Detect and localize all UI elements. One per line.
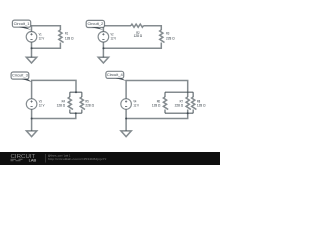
svg-text:128 Ω: 128 Ω bbox=[134, 34, 143, 38]
svg-text:http://circuitlab.com/c/4534b8: http://circuitlab.com/c/4534b8djnjv7z bbox=[48, 157, 107, 161]
svg-text:128 Ω: 128 Ω bbox=[65, 36, 74, 40]
svg-text:12 V: 12 V bbox=[133, 104, 139, 108]
svg-text:128 Ω: 128 Ω bbox=[197, 104, 206, 108]
svg-text:Circuit_4: Circuit_4 bbox=[107, 72, 124, 77]
svg-text:Circuit_1: Circuit_1 bbox=[14, 21, 31, 26]
svg-text:128 Ω: 128 Ω bbox=[152, 104, 161, 108]
svg-text:R1: R1 bbox=[65, 32, 68, 36]
svg-text:128 Ω: 128 Ω bbox=[57, 104, 66, 108]
svg-text:12 V: 12 V bbox=[39, 104, 45, 108]
svg-text:12 V: 12 V bbox=[39, 36, 45, 40]
svg-text:228 Ω: 228 Ω bbox=[175, 104, 184, 108]
svg-text:228 Ω: 228 Ω bbox=[166, 36, 175, 40]
svg-text:LAB: LAB bbox=[29, 158, 37, 163]
svg-text:228 Ω: 228 Ω bbox=[85, 104, 94, 108]
svg-text:Circuit_2: Circuit_2 bbox=[87, 21, 104, 26]
svg-text:R3: R3 bbox=[166, 32, 169, 36]
svg-text:Circuit_3: Circuit_3 bbox=[12, 73, 29, 78]
svg-text:12 V: 12 V bbox=[111, 36, 117, 40]
